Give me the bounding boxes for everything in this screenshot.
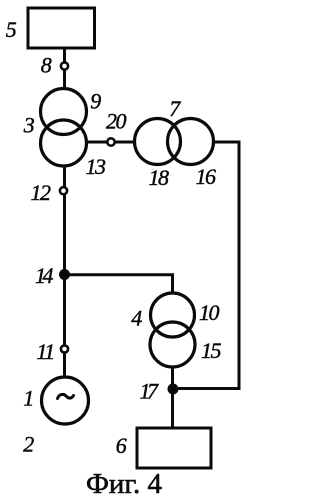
- node 8 (open terminal): [61, 62, 68, 69]
- node 20 (open terminal): [107, 138, 114, 145]
- svg-text:9: 9: [90, 89, 101, 114]
- svg-text:2: 2: [23, 432, 34, 457]
- svg-text:17: 17: [140, 379, 160, 404]
- transformer 7 right winding 16: [168, 119, 214, 165]
- transformer 4 lower winding 15: [150, 322, 195, 367]
- svg-text:7: 7: [169, 96, 181, 121]
- wire: transformer 3 to transformer 7 (through node 20): [85, 141, 134, 144]
- block 6: [137, 428, 211, 468]
- svg-text:Фиг. 4: Фиг. 4: [86, 468, 163, 500]
- wire: transformer 7 to node 17 via right side: [173, 142, 239, 389]
- generator 1 circle: [42, 377, 89, 424]
- svg-text:6: 6: [116, 433, 127, 458]
- svg-text:11: 11: [36, 339, 53, 364]
- node 11 (open terminal): [61, 345, 68, 352]
- svg-text:20: 20: [106, 109, 127, 134]
- wire: transformer 3 to node 14 (through node 12): [63, 166, 66, 275]
- transformer 3 upper winding 9: [41, 89, 87, 135]
- svg-text:18: 18: [149, 165, 170, 190]
- block 5: [28, 8, 95, 48]
- svg-text:3: 3: [23, 113, 35, 138]
- svg-text:16: 16: [196, 164, 217, 189]
- svg-text:4: 4: [131, 306, 142, 331]
- wire: node 14 to generator 1 (through node 11): [63, 275, 66, 378]
- transformer 4 upper winding 10: [151, 293, 195, 337]
- node 17 (junction dot): [168, 384, 179, 395]
- transformer 3 lower winding 13: [41, 120, 87, 166]
- wire: block 5 to transformer 3 (through node 8): [63, 48, 66, 89]
- svg-text:8: 8: [41, 53, 52, 78]
- svg-text:15: 15: [201, 338, 222, 363]
- svg-text:5: 5: [6, 17, 17, 42]
- transformer 7 left winding 18: [135, 119, 181, 165]
- svg-text:1: 1: [23, 386, 33, 411]
- node 12 (open terminal): [60, 187, 67, 194]
- node 14 (junction dot): [59, 269, 70, 280]
- wire: transformer 4 to block 6 (through node 17): [171, 367, 174, 428]
- svg-text:14: 14: [35, 263, 54, 288]
- wire: node 14 to transformer 4: [65, 275, 173, 293]
- svg-text:13: 13: [86, 154, 107, 179]
- svg-text:12: 12: [31, 180, 52, 205]
- svg-text:10: 10: [199, 300, 220, 325]
- generator tilde symbol: [58, 394, 74, 398]
